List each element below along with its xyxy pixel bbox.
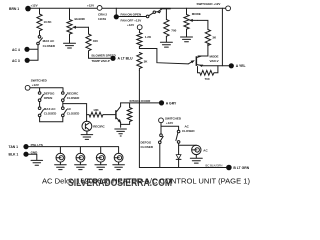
svg-text:BLEND: BLEND (75, 17, 86, 21)
ground lamp 2 (75, 162, 87, 170)
svg-text:CLOSED: CLOSED (43, 44, 56, 48)
wire AC contact down (179, 143, 197, 154)
svg-text:A GRY: A GRY (166, 101, 177, 105)
terminal A YEL (229, 63, 246, 68)
resistor 700 feedback (198, 66, 218, 81)
terminal BRN 1 (9, 3, 38, 11)
svg-text:DEFOG: DEFOG (44, 92, 55, 96)
wire rail switched to Q2 emitter (221, 8, 223, 66)
wire (39, 102, 41, 107)
switch AC (62, 107, 81, 117)
switch RECIRC (62, 92, 81, 102)
svg-text:SWITCHED +12V: SWITCHED +12V (197, 2, 221, 6)
actuator RECIRC (82, 121, 106, 131)
svg-text:BLK 1: BLK 1 (9, 153, 19, 157)
svg-text:CLOSED: CLOSED (67, 96, 80, 100)
switch MAX AC lower (38, 107, 57, 117)
svg-text:1.2K: 1.2K (145, 35, 152, 39)
wire left rail to bottom (138, 71, 140, 168)
wire block bottom (40, 117, 63, 122)
terminal AC 4 (12, 47, 30, 52)
wire main +12V rail (31, 7, 226, 9)
wiper arrow BLEND (72, 26, 89, 34)
lamp AC (192, 145, 209, 154)
svg-text:INTAKE DOOR: INTAKE DOOR (130, 99, 152, 103)
svg-text:10K: 10K (93, 108, 99, 112)
svg-text:+12V: +12V (127, 23, 134, 27)
svg-text:TAN 1: TAN 1 (9, 145, 19, 149)
wire junction to PNP base (139, 49, 194, 64)
terminal SWITCHED +12V right (159, 117, 182, 125)
terminal CB +12V (87, 4, 102, 11)
svg-text:11159: 11159 (98, 17, 106, 21)
svg-text:BRN 1: BRN 1 (9, 7, 19, 11)
svg-text:MAX AC: MAX AC (44, 107, 57, 111)
svg-text:AC 3: AC 3 (12, 59, 20, 63)
svg-text:TEMP VAR-P: TEMP VAR-P (92, 59, 110, 63)
node CRN 2 (98, 8, 119, 20)
svg-text:CLOSED: CLOSED (67, 112, 80, 116)
ground under 700 (160, 37, 172, 47)
terminal SWITCHED +12V top right (197, 2, 231, 11)
svg-text:SWITCHED: SWITCHED (31, 79, 48, 83)
svg-text:+12V: +12V (32, 83, 39, 87)
svg-text:MODE: MODE (192, 12, 201, 16)
wire terminals to switch (30, 45, 38, 61)
svg-text:+12V: +12V (87, 4, 94, 8)
transistor Q2 (196, 56, 229, 67)
svg-text:10.5K: 10.5K (44, 20, 53, 24)
svg-text:CLOSED: CLOSED (182, 129, 195, 133)
ground lamp 3 (95, 162, 107, 170)
wire switch block feed (30, 88, 63, 92)
svg-text:VAR-V: VAR-V (210, 59, 219, 63)
switch FAN (146, 11, 157, 18)
svg-text:A YEL: A YEL (236, 64, 246, 68)
ground BLK 1 (29, 154, 43, 165)
svg-text:AC 4: AC 4 (12, 48, 20, 52)
svg-text:RECIRC: RECIRC (93, 125, 105, 129)
wire to AC switches (161, 123, 179, 134)
wire to blower speed node (89, 55, 111, 59)
svg-text:B LT GRN: B LT GRN (233, 166, 249, 170)
wiper arrow MODE (189, 19, 208, 30)
switch MAX AC top (37, 33, 56, 48)
node label MODE VAR-V (210, 55, 219, 63)
wire 3K to transistor Q2 (198, 44, 208, 56)
svg-text:CRN 2: CRN 2 (98, 12, 107, 16)
resistor 3K left (137, 53, 148, 71)
terminal A GRY (159, 100, 177, 105)
svg-text:+12V: +12V (166, 121, 173, 125)
svg-text:+12V: +12V (31, 3, 38, 7)
title (42, 177, 250, 189)
potentiometer BLEND (67, 8, 86, 35)
switch DEFOG (38, 92, 55, 102)
resistor 10.5K (37, 8, 52, 33)
ground under BLEND (64, 36, 76, 48)
ground lamp 4 (113, 162, 125, 170)
transistor Q3 (115, 103, 121, 127)
resistor 3K right (205, 30, 217, 46)
wire panel lamps rail (29, 147, 119, 154)
svg-text:700: 700 (205, 77, 210, 81)
svg-text:SILVERADOSIERRA.COM: SILVERADOSIERRA.COM (68, 177, 172, 189)
resistor 10K (87, 108, 116, 117)
potentiometer MODE (184, 8, 201, 29)
svg-text:OPEN: OPEN (44, 96, 53, 100)
ground lamp 1 (55, 162, 67, 170)
resistor 1.2K (137, 30, 152, 49)
lamp PNL 4 (114, 153, 123, 162)
svg-text:CLOSED: CLOSED (141, 145, 154, 149)
svg-text:A LT BLU: A LT BLU (118, 57, 134, 61)
terminal B LT GRN (226, 165, 250, 171)
switch DEFOG right (141, 134, 164, 149)
svg-text:CLOSED: CLOSED (44, 112, 57, 116)
terminal AC 3 (12, 58, 30, 63)
svg-text:700: 700 (171, 29, 176, 33)
wire defog contact to bottom rail (159, 144, 161, 168)
transistor Q1 (157, 8, 170, 20)
diode (176, 155, 181, 168)
lamp PNL 3 (96, 153, 105, 162)
resistor emitter feedback (121, 103, 132, 125)
wire INTAKE DOOR (121, 99, 159, 103)
svg-text:SWITCHED: SWITCHED (165, 117, 182, 121)
ground under Q3 (115, 129, 127, 136)
lamp PNL 1 (56, 153, 65, 162)
terminal SWITCHED +12V mid left (25, 79, 47, 91)
svg-text:FAN ON OPEN: FAN ON OPEN (121, 12, 142, 16)
wire recirc column (63, 102, 87, 122)
svg-text:DEFOG: DEFOG (141, 140, 152, 144)
ground under RECIRC (81, 131, 93, 139)
svg-text:400: 400 (93, 39, 98, 43)
svg-text:FAN OFF +12V: FAN OFF +12V (121, 19, 142, 23)
terminal +12V mid (127, 23, 142, 29)
resistor 400 (86, 34, 98, 55)
svg-text:MAX AC: MAX AC (43, 39, 56, 43)
ground under lamp AC (190, 155, 202, 164)
svg-text:BC BLK/GRN: BC BLK/GRN (206, 163, 223, 167)
svg-text:RECIRC: RECIRC (67, 92, 79, 96)
lamp PNL 2 (76, 153, 85, 162)
wire bottom rail (139, 163, 226, 167)
ground under MODE (181, 30, 193, 42)
node BLOWER SPEED TEMP VAR-P (92, 54, 134, 64)
terminal BLK 1 (9, 150, 39, 156)
switch AC right (176, 124, 195, 143)
wire fan node to switch (119, 12, 146, 22)
resistor 700 (164, 20, 177, 38)
terminal TAN 1 (9, 143, 43, 149)
